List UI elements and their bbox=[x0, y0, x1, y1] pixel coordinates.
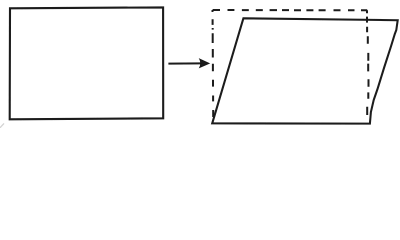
original rectangle (left) bbox=[10, 7, 164, 119]
sheared parallelogram bbox=[212, 18, 398, 123]
dashed box top edge bbox=[213, 9, 368, 11]
dashed box left edge bbox=[212, 10, 215, 117]
arrow shaft bbox=[168, 62, 201, 64]
arrow head bbox=[200, 59, 210, 68]
dashed box right edge bbox=[367, 10, 369, 115]
stray mark bottom-left corner bbox=[0, 123, 4, 128]
